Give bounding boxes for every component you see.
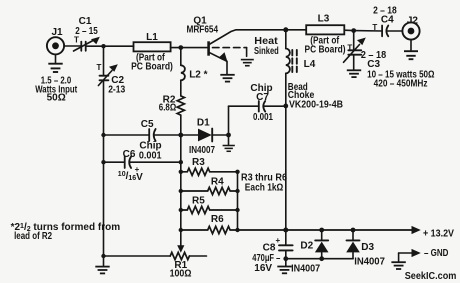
svg-text:+: +	[275, 236, 280, 245]
svg-text:T: T	[74, 36, 79, 45]
svg-text:R3: R3	[192, 157, 205, 168]
svg-text:lead of R2: lead of R2	[14, 231, 52, 242]
svg-text:MRF654: MRF654	[186, 25, 218, 36]
svg-text:16V: 16V	[254, 263, 272, 274]
svg-text:Sinked: Sinked	[254, 46, 279, 57]
svg-text:J2: J2	[407, 16, 419, 27]
svg-text:R4: R4	[211, 176, 224, 187]
svg-text:R5: R5	[192, 196, 205, 207]
svg-text:T: T	[97, 63, 102, 72]
svg-text:IN4007: IN4007	[291, 264, 320, 275]
svg-text:L3: L3	[318, 14, 330, 25]
svg-text:Each 1kΩ: Each 1kΩ	[245, 183, 283, 194]
svg-text:R6: R6	[211, 214, 224, 225]
svg-text:6.8Ω: 6.8Ω	[159, 103, 176, 114]
svg-text:D2: D2	[300, 240, 313, 251]
svg-text:D1: D1	[197, 117, 210, 128]
svg-text:C5: C5	[141, 119, 154, 130]
svg-text:IN4007: IN4007	[354, 256, 385, 267]
svg-text:PC Board): PC Board)	[305, 45, 346, 56]
svg-text:J1: J1	[51, 27, 63, 38]
svg-text:L2 *: L2 *	[189, 70, 207, 81]
svg-text:C4: C4	[381, 14, 394, 25]
svg-text:C6: C6	[123, 149, 136, 160]
svg-text:VK200-19-4B: VK200-19-4B	[289, 99, 343, 110]
svg-text:PC Board): PC Board)	[131, 62, 173, 73]
svg-text:50Ω: 50Ω	[47, 93, 66, 104]
svg-text:0.001: 0.001	[253, 112, 273, 123]
svg-text:C7: C7	[256, 92, 269, 103]
svg-text:L4: L4	[304, 59, 316, 70]
svg-text:420 – 450MHz: 420 – 450MHz	[374, 79, 428, 90]
svg-text:T: T	[372, 23, 377, 32]
svg-text:0.001: 0.001	[139, 150, 162, 161]
svg-text:IN4007: IN4007	[189, 145, 215, 156]
svg-text:– GND: – GND	[424, 248, 448, 259]
svg-text:+ 13.2V: + 13.2V	[423, 229, 454, 240]
svg-text:C3: C3	[367, 59, 380, 70]
svg-text:T: T	[347, 43, 352, 52]
svg-text:L1: L1	[146, 32, 158, 43]
svg-text:C8: C8	[263, 242, 276, 253]
svg-text:2-13: 2-13	[108, 85, 125, 96]
svg-text:D3: D3	[361, 242, 374, 253]
svg-text:100Ω: 100Ω	[170, 268, 192, 279]
svg-text:SeekIC.com: SeekIC.com	[405, 271, 457, 282]
